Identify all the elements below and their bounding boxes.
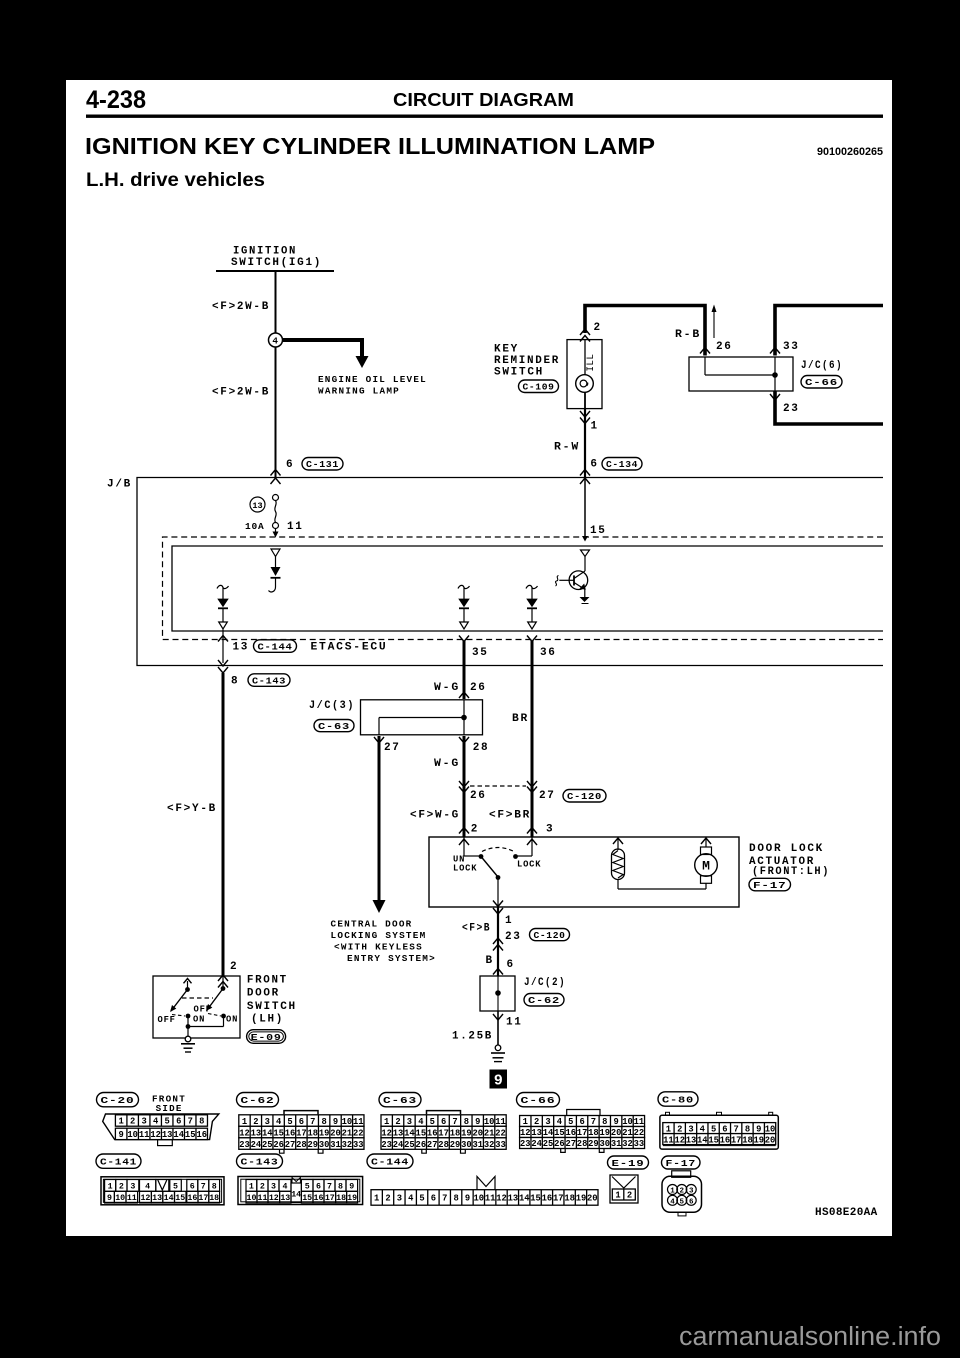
svg-text:32: 32 (342, 1140, 353, 1150)
svg-text:10: 10 (765, 1124, 776, 1134)
svg-text:4: 4 (145, 1182, 150, 1191)
svg-text:16: 16 (187, 1194, 197, 1203)
svg-text:11: 11 (663, 1135, 674, 1145)
svg-text:11: 11 (634, 1117, 645, 1127)
svg-text:CIRCUIT DIAGRAM: CIRCUIT DIAGRAM (393, 90, 574, 110)
bus wire key reminder switch to J/C(6) (585, 306, 705, 356)
crossing arrows C-120 pin 26 (459, 781, 469, 787)
connector crossing arrows pin 2 (580, 329, 590, 335)
svg-text:18: 18 (450, 1128, 461, 1138)
svg-text:C-66: C-66 (805, 377, 838, 388)
svg-text:35: 35 (472, 647, 489, 659)
svg-text:15: 15 (590, 525, 607, 537)
svg-text:10: 10 (342, 1117, 353, 1127)
svg-text:3: 3 (545, 1117, 550, 1127)
crossing arrows into actuator (459, 828, 469, 834)
svg-text:SIDE: SIDE (156, 1104, 183, 1114)
svg-text:10: 10 (115, 1194, 125, 1203)
svg-text:12: 12 (496, 1194, 507, 1204)
svg-text:30: 30 (319, 1140, 330, 1150)
svg-text:12: 12 (239, 1128, 250, 1138)
crossing arrow into J/C(3) (459, 692, 469, 698)
svg-text:26: 26 (416, 1140, 427, 1150)
svg-text:32: 32 (484, 1140, 495, 1150)
svg-text:23: 23 (505, 931, 522, 943)
svg-text:4: 4 (153, 1117, 159, 1127)
motor M (701, 838, 711, 844)
fuse 13 10A (273, 495, 279, 501)
svg-text:31: 31 (330, 1140, 341, 1150)
diode D2 to pin 13 (217, 585, 229, 629)
svg-text:5: 5 (430, 1117, 435, 1127)
svg-text:6: 6 (431, 1194, 436, 1204)
svg-text:HS08E20AA: HS08E20AA (815, 1207, 878, 1219)
svg-text:C-144: C-144 (258, 641, 293, 652)
svg-text:1: 1 (384, 1117, 389, 1127)
crossing arrow pin 26 (700, 348, 710, 354)
svg-text:9: 9 (107, 1194, 112, 1203)
svg-text:REMINDER: REMINDER (494, 355, 560, 367)
svg-text:20: 20 (330, 1128, 341, 1138)
C-63 pins 1-11 (381, 1115, 506, 1127)
svg-text:<F>Y-B: <F>Y-B (167, 803, 217, 815)
svg-text:1: 1 (615, 1191, 620, 1201)
svg-text:KEY: KEY (494, 344, 519, 356)
svg-text:10: 10 (474, 1194, 485, 1204)
C-120 dashed connector line (470, 785, 526, 787)
svg-text:J/C(6): J/C(6) (801, 360, 843, 372)
svg-text:10: 10 (247, 1194, 257, 1203)
C-80 housing (660, 1115, 778, 1149)
svg-text:SWITCH(IG1): SWITCH(IG1) (231, 257, 322, 269)
wire J/C(6) pin 23 to right edge (775, 391, 883, 424)
svg-text:3: 3 (546, 824, 554, 836)
svg-text:5: 5 (568, 1117, 573, 1127)
svg-text:J/C(2): J/C(2) (524, 977, 566, 989)
junction connector J/C(2) box (480, 976, 515, 1011)
svg-text:1: 1 (505, 915, 513, 927)
svg-text:2: 2 (677, 1124, 682, 1134)
svg-text:23: 23 (381, 1140, 392, 1150)
svg-text:7: 7 (452, 1117, 457, 1127)
svg-text:27: 27 (384, 742, 401, 754)
svg-text:6: 6 (286, 459, 294, 471)
svg-text:16: 16 (427, 1128, 438, 1138)
crossing arrow pin 28 (459, 737, 469, 743)
C-62 housing tab (284, 1111, 318, 1115)
svg-text:19: 19 (461, 1128, 472, 1138)
svg-text:6: 6 (316, 1182, 321, 1191)
crossing arrows at C-134 (580, 470, 590, 476)
connector C-63 (314, 720, 354, 732)
svg-text:21: 21 (622, 1128, 633, 1138)
svg-text:2: 2 (471, 824, 479, 836)
svg-text:12: 12 (140, 1194, 150, 1203)
svg-text:F-17: F-17 (666, 1158, 697, 1169)
svg-text:5: 5 (419, 1194, 424, 1204)
junction dot in J/C(6) (772, 372, 778, 378)
E-19 pins 1-2 (612, 1189, 635, 1201)
svg-text:18: 18 (209, 1194, 219, 1203)
svg-text:7: 7 (201, 1182, 206, 1191)
svg-text:IGNITION KEY CYLINDER ILLUM: IGNITION KEY CYLINDER ILLUMINATION LAMP (85, 133, 655, 159)
svg-text:C-62: C-62 (528, 995, 560, 1006)
svg-text:9: 9 (119, 1130, 124, 1140)
svg-text:7: 7 (327, 1182, 332, 1191)
svg-text:20: 20 (765, 1135, 776, 1145)
C-141 pins 1-8 row (105, 1180, 139, 1192)
svg-text:26: 26 (470, 682, 487, 694)
F-17 pin 6 (686, 1195, 696, 1205)
connector C-141 label (96, 1154, 141, 1168)
svg-text:5: 5 (680, 1198, 685, 1206)
F-17 housing (672, 1171, 691, 1178)
svg-text:2: 2 (594, 322, 602, 334)
svg-text:27: 27 (285, 1140, 296, 1150)
svg-text:C-66: C-66 (521, 1095, 556, 1106)
svg-text:C-143: C-143 (252, 675, 286, 686)
svg-text:E-19: E-19 (612, 1158, 645, 1169)
svg-text:2: 2 (680, 1188, 685, 1196)
svg-text:22: 22 (495, 1128, 506, 1138)
svg-text:15: 15 (185, 1130, 196, 1140)
svg-text:15: 15 (175, 1194, 185, 1203)
C-144 key (477, 1177, 495, 1190)
svg-text:4-238: 4-238 (86, 86, 146, 114)
svg-text:8: 8 (231, 676, 239, 688)
svg-text:13: 13 (252, 501, 262, 511)
svg-text:W-G: W-G (434, 682, 460, 694)
svg-text:4: 4 (272, 336, 278, 347)
branch wire to engine oil level warning lamp (283, 340, 362, 357)
svg-text:13: 13 (162, 1130, 173, 1140)
svg-text:2: 2 (130, 1117, 135, 1127)
svg-text:33: 33 (353, 1140, 364, 1150)
right pole dashed throw (208, 1014, 221, 1017)
svg-text:3: 3 (397, 1194, 402, 1204)
svg-text:8: 8 (212, 1182, 217, 1191)
connector C-120 (563, 790, 606, 803)
svg-text:15: 15 (302, 1194, 312, 1203)
svg-text:14: 14 (519, 1194, 530, 1204)
svg-text:2: 2 (230, 961, 238, 973)
svg-text:27: 27 (565, 1139, 576, 1149)
svg-text:9: 9 (333, 1117, 338, 1127)
svg-text:1: 1 (523, 1117, 528, 1127)
svg-text:8: 8 (199, 1117, 204, 1127)
wire IG1 down to node 4 (275, 271, 277, 333)
svg-text:10: 10 (127, 1130, 138, 1140)
crossing arrows front door switch (218, 975, 228, 981)
svg-text:3: 3 (689, 1188, 694, 1196)
wire to central door locking system (378, 736, 381, 901)
svg-text:C-144: C-144 (371, 1157, 409, 1168)
connector C-144 label (367, 1154, 413, 1168)
svg-text:J/B: J/B (107, 479, 132, 491)
connector C-63 label (379, 1093, 421, 1107)
svg-text:11: 11 (506, 1017, 523, 1029)
svg-text:3: 3 (271, 1182, 276, 1191)
connector C-66 (801, 376, 842, 389)
svg-text:28: 28 (438, 1140, 449, 1150)
svg-text:14: 14 (173, 1130, 184, 1140)
junction block J/B outline (137, 478, 883, 666)
svg-text:16: 16 (542, 1194, 553, 1204)
svg-text:LOCK: LOCK (453, 864, 477, 874)
svg-text:18: 18 (742, 1135, 753, 1145)
svg-text:R-B: R-B (675, 329, 701, 341)
svg-text:6: 6 (689, 1198, 694, 1206)
svg-text:C-120: C-120 (567, 791, 602, 802)
svg-text:17: 17 (438, 1128, 449, 1138)
svg-text:26: 26 (554, 1139, 565, 1149)
wire pin 28 down (463, 736, 466, 837)
junction connector J/C(6) box (689, 357, 793, 391)
C-63 feet (422, 1149, 427, 1153)
svg-text:30: 30 (600, 1139, 611, 1149)
svg-text:10: 10 (622, 1117, 633, 1127)
wire pin 36 exit (527, 636, 537, 642)
svg-text:32: 32 (622, 1139, 633, 1149)
svg-text:26: 26 (716, 341, 733, 353)
connector C-131 (302, 458, 343, 471)
crossing arrow pin 33 (770, 348, 780, 354)
svg-text:6: 6 (441, 1117, 446, 1127)
svg-text:21: 21 (342, 1128, 353, 1138)
svg-text:<F>W-G: <F>W-G (410, 810, 460, 822)
wire fuse to ETACS-ECU (275, 529, 277, 534)
switch pivot (496, 875, 501, 880)
wire pin 13 exit (222, 630, 224, 664)
wire J/C(2) to ground (497, 1011, 499, 1045)
C-20 pins 1-8 (115, 1115, 207, 1127)
crossing arrow pin 23 (770, 394, 780, 400)
transistor Q1 (556, 550, 590, 604)
connector C-20 label (97, 1093, 139, 1107)
svg-text:23: 23 (520, 1139, 531, 1149)
svg-text:12: 12 (269, 1194, 279, 1203)
crossing arrows C-120 pin 27 (527, 781, 537, 787)
connector C-20 housing (103, 1114, 219, 1140)
svg-text:16: 16 (314, 1194, 324, 1203)
svg-text:14: 14 (697, 1135, 708, 1145)
svg-text:2: 2 (395, 1117, 400, 1127)
crossing arrow pin 27 (374, 737, 384, 743)
svg-text:3: 3 (688, 1124, 693, 1134)
svg-text:15: 15 (416, 1128, 427, 1138)
svg-text:11: 11 (485, 1194, 496, 1204)
svg-text:18: 18 (307, 1128, 318, 1138)
C-80 pins 11-20 (663, 1134, 776, 1146)
svg-text:(LH): (LH) (251, 1014, 284, 1026)
svg-text:31: 31 (472, 1140, 483, 1150)
connector crossing arrows at C-131 (271, 470, 281, 476)
svg-text:WARNING LAMP: WARNING LAMP (318, 387, 400, 397)
svg-text:F-17: F-17 (753, 880, 787, 891)
C-66 pins 1-11 (520, 1116, 645, 1128)
svg-text:21: 21 (484, 1128, 495, 1138)
svg-text:23: 23 (239, 1140, 250, 1150)
svg-text:DOOR LOCK: DOOR LOCK (749, 843, 824, 855)
svg-text:2: 2 (119, 1182, 124, 1191)
wire R-W down to J/B (584, 409, 586, 478)
crossing arrows C-120 pin 23 (493, 938, 503, 944)
connector C-109 (519, 380, 559, 393)
svg-text:16: 16 (720, 1135, 731, 1145)
svg-text:11: 11 (258, 1194, 268, 1203)
svg-text:(FRONT:LH): (FRONT:LH) (752, 866, 830, 878)
junction connector J/C(3) box (361, 700, 483, 735)
svg-text:11: 11 (127, 1194, 137, 1203)
svg-text:9: 9 (494, 1072, 502, 1089)
svg-text:1: 1 (591, 421, 599, 433)
diode D1 input from fuse (269, 549, 281, 592)
crossing arrow pin 6 (493, 969, 503, 975)
svg-text:L.H. drive vehicles: L.H. drive vehicles (86, 170, 265, 191)
wire pin 35 exit (459, 636, 469, 642)
svg-text:ON: ON (193, 1015, 205, 1025)
svg-text:6: 6 (590, 459, 598, 471)
svg-text:4: 4 (670, 1198, 675, 1206)
svg-text:OFF: OFF (194, 1005, 212, 1015)
svg-text:9: 9 (465, 1194, 470, 1204)
svg-text:6: 6 (579, 1117, 584, 1127)
svg-text:14: 14 (291, 1191, 301, 1200)
svg-text:15: 15 (273, 1128, 284, 1138)
svg-text:6: 6 (299, 1117, 304, 1127)
svg-text:C-141: C-141 (100, 1157, 137, 1168)
svg-text:20: 20 (472, 1128, 483, 1138)
svg-text:22: 22 (634, 1128, 645, 1138)
svg-text:7: 7 (188, 1117, 193, 1127)
svg-text:1: 1 (242, 1117, 247, 1127)
svg-text:14: 14 (404, 1128, 415, 1138)
svg-text:6: 6 (176, 1117, 181, 1127)
svg-text:4: 4 (557, 1117, 563, 1127)
svg-text:4: 4 (418, 1117, 424, 1127)
svg-text:9: 9 (475, 1117, 480, 1127)
svg-text:11: 11 (495, 1117, 506, 1127)
front door switch box (153, 976, 240, 1038)
C-66 pins 23-33 (520, 1138, 645, 1150)
svg-text:11: 11 (287, 521, 304, 533)
right pole wire (222, 976, 224, 988)
connector crossing arrows pin 1 (580, 411, 590, 417)
svg-text:B: B (486, 955, 494, 967)
E-19 housing (610, 1175, 638, 1203)
svg-text:1.25B: 1.25B (452, 1031, 493, 1043)
svg-text:<F>BR: <F>BR (489, 810, 531, 822)
svg-text:1: 1 (670, 1188, 675, 1196)
svg-text:16: 16 (565, 1128, 576, 1138)
svg-text:OFF: OFF (158, 1015, 176, 1025)
svg-text:7: 7 (734, 1124, 739, 1134)
fuse number 13 (circled) (250, 497, 265, 512)
svg-text:11: 11 (139, 1130, 150, 1140)
svg-text:18: 18 (336, 1194, 346, 1203)
svg-text:15: 15 (530, 1194, 541, 1204)
svg-text:4: 4 (276, 1117, 282, 1127)
switch throw dashed arc (482, 848, 514, 852)
svg-text:27: 27 (427, 1140, 438, 1150)
svg-text:ETACS-ECU: ETACS-ECU (311, 642, 388, 654)
svg-text:5: 5 (173, 1182, 178, 1191)
F-17 pin 5 (677, 1195, 687, 1205)
connector F-17 label (662, 1156, 701, 1169)
wire inside J/C(2) (497, 976, 499, 1011)
svg-text:carmanualsonline.info: carmanualsonline.info (679, 1323, 941, 1351)
wire inside switch box (584, 340, 586, 375)
svg-text:12: 12 (381, 1128, 392, 1138)
svg-text:24: 24 (251, 1140, 262, 1150)
diode D4 to pin 36 (526, 585, 538, 629)
svg-text:7: 7 (310, 1117, 315, 1127)
connector C-62 (524, 994, 564, 1007)
svg-text:8: 8 (338, 1182, 343, 1191)
svg-text:ENTRY SYSTEM>: ENTRY SYSTEM> (347, 954, 436, 964)
svg-text:1: 1 (249, 1182, 254, 1191)
svg-text:SWITCH: SWITCH (247, 1001, 297, 1013)
svg-text:33: 33 (783, 341, 800, 353)
svg-text:9: 9 (614, 1117, 619, 1127)
svg-text:10A: 10A (245, 521, 265, 532)
svg-text:19: 19 (347, 1194, 357, 1203)
left pole lever (171, 990, 188, 1012)
svg-text:3: 3 (265, 1117, 270, 1127)
svg-text:19: 19 (753, 1135, 764, 1145)
C-62 pins 23-33 (239, 1138, 364, 1150)
junction dot in J/C(2) (495, 990, 501, 996)
svg-text:<F>2W-B: <F>2W-B (212, 301, 270, 313)
svg-text:8: 8 (322, 1117, 327, 1127)
svg-text:2: 2 (253, 1117, 258, 1127)
C-143 housing (238, 1177, 363, 1205)
connector C-80 label (658, 1092, 698, 1106)
svg-text:28: 28 (296, 1140, 307, 1150)
svg-text:<WITH KEYLESS: <WITH KEYLESS (334, 943, 423, 953)
svg-text:13: 13 (508, 1194, 519, 1204)
svg-text:M: M (702, 859, 710, 874)
svg-text:C-62: C-62 (241, 1095, 275, 1106)
svg-text:ILL: ILL (586, 354, 597, 372)
svg-text:R-W: R-W (554, 441, 580, 453)
svg-text:3: 3 (142, 1117, 147, 1127)
ETACS-ECU inner box (172, 546, 883, 631)
C-62 feet (280, 1149, 285, 1153)
svg-text:2: 2 (534, 1117, 539, 1127)
svg-text:14: 14 (262, 1128, 273, 1138)
node 4 (circled) (269, 333, 283, 347)
C-63 pins 12-22 (381, 1126, 506, 1138)
svg-text:<F>B: <F>B (462, 923, 491, 935)
C-63 housing tab (427, 1111, 461, 1115)
svg-text:17: 17 (731, 1135, 742, 1145)
resistor (door lock illumination) (613, 838, 623, 844)
svg-text:13: 13 (152, 1194, 162, 1203)
svg-text:20: 20 (587, 1194, 598, 1204)
svg-text:IGNITION: IGNITION (233, 246, 297, 258)
svg-text:27: 27 (539, 790, 556, 802)
svg-text:C-63: C-63 (318, 721, 350, 732)
svg-text:2: 2 (385, 1194, 390, 1204)
ground G2 under door switch (185, 1036, 191, 1042)
C-143 pins 10-19 row (246, 1191, 291, 1203)
svg-text:6: 6 (190, 1182, 195, 1191)
svg-text:19: 19 (600, 1128, 611, 1138)
svg-text:C-109: C-109 (523, 382, 555, 393)
svg-text:1: 1 (119, 1117, 124, 1127)
svg-text:24: 24 (393, 1140, 404, 1150)
